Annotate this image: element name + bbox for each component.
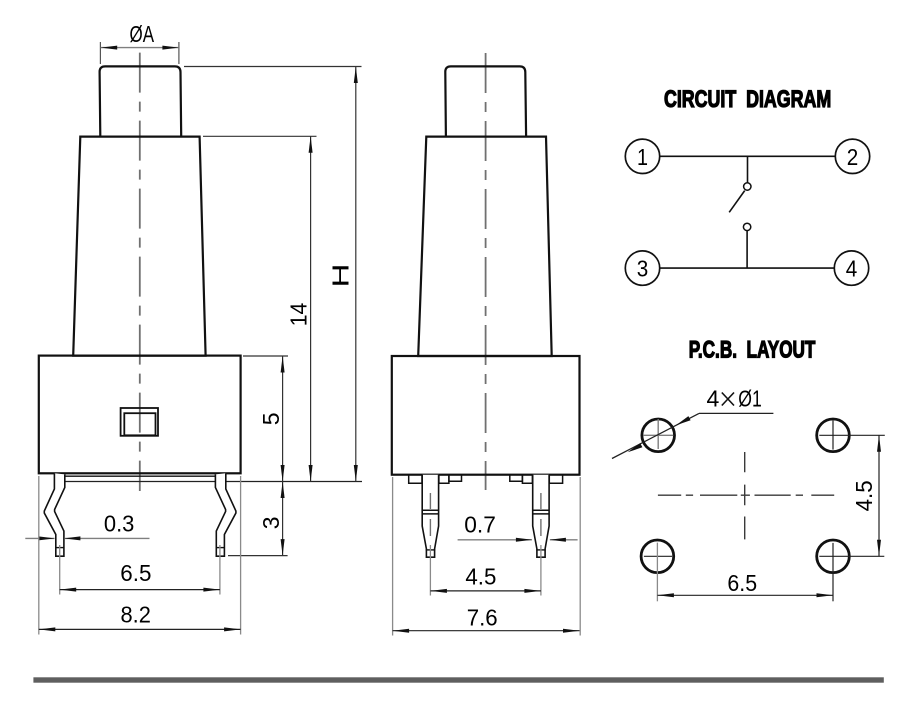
svg-text:4: 4	[846, 256, 858, 282]
front view: tapered plunger body	[73, 137, 205, 356]
terminal 1	[625, 139, 659, 173]
switch contact upper	[744, 183, 751, 190]
wire stub from top wire	[747, 156, 749, 182]
side view: mounting tabs left pin	[409, 475, 462, 484]
switch arm	[729, 191, 745, 213]
pcb hole bottom-left	[641, 540, 674, 601]
dimension H	[184, 67, 362, 482]
terminal 4	[834, 251, 868, 285]
front view: left lead pin	[44, 473, 65, 556]
svg-text:8.2: 8.2	[121, 602, 151, 628]
dimension 6.5 front	[60, 545, 220, 595]
svg-text:P.C.B. LAYOUT: P.C.B. LAYOUT	[689, 337, 816, 364]
front view: base window detail	[121, 408, 158, 436]
terminal 3	[625, 251, 659, 285]
pcb vertical centerline	[744, 452, 746, 539]
svg-text:Ø1: Ø1	[738, 386, 762, 412]
side view centerline	[485, 53, 487, 490]
pcb hole top-right	[817, 419, 885, 452]
pcb hole bottom-right	[817, 540, 885, 601]
dimension 5	[243, 356, 288, 482]
side view: right pin centerline	[540, 493, 542, 596]
wire terminal 1 to terminal 2	[660, 155, 836, 157]
side view: mounting tabs right pin	[510, 475, 563, 484]
svg-text:6.5: 6.5	[727, 570, 757, 596]
front view: base housing	[39, 356, 241, 474]
dimension 4.5 side	[430, 564, 541, 593]
svg-text:6.5: 6.5	[120, 560, 151, 586]
dimension 0.3	[25, 511, 149, 541]
pcb dimension 6.5	[657, 570, 833, 597]
svg-text:CIRCUIT DIAGRAM: CIRCUIT DIAGRAM	[664, 86, 831, 113]
svg-text:4.5: 4.5	[465, 564, 496, 590]
svg-text:5: 5	[258, 413, 284, 426]
side view: right lead pin	[533, 475, 549, 558]
footer separator bar	[33, 677, 883, 682]
front view centerline	[139, 53, 141, 491]
terminal 2	[835, 139, 869, 173]
svg-text:0.7: 0.7	[464, 512, 496, 538]
switch contact lower	[743, 223, 750, 230]
circuit diagram title	[664, 86, 831, 113]
pcb dimension 4.5	[851, 435, 881, 556]
leader 4x diameter 1	[612, 386, 773, 459]
pcb horizontal centerline	[658, 494, 834, 496]
pcb layout title	[689, 337, 816, 364]
side view: button cap	[445, 66, 526, 136]
svg-text:4: 4	[707, 386, 720, 412]
side view: base housing	[392, 356, 580, 475]
pcb hole top-left	[642, 419, 675, 452]
svg-text:0.3: 0.3	[104, 511, 134, 537]
svg-text:3: 3	[258, 517, 284, 530]
dimension 3	[228, 482, 288, 556]
front view: button cap	[100, 66, 182, 136]
front view: base bottom lip	[65, 476, 362, 481]
svg-text:14: 14	[286, 303, 312, 327]
svg-text:H: H	[328, 264, 354, 288]
dimension 14	[203, 136, 317, 481]
side view: left lead pin	[422, 475, 438, 558]
svg-text:2: 2	[847, 144, 859, 170]
dimension ØA	[100, 21, 178, 64]
svg-text:3: 3	[637, 256, 649, 282]
svg-text:7.6: 7.6	[467, 604, 498, 630]
wire terminal 3 to terminal 4	[660, 267, 835, 269]
svg-text:4.5: 4.5	[851, 480, 877, 511]
dimension 8.2	[39, 476, 241, 635]
wire stub to bottom wire	[746, 231, 748, 268]
dimension 0.7	[458, 512, 578, 542]
side view: left pin centerline	[429, 493, 431, 596]
dimension 7.6	[393, 477, 581, 636]
svg-text:ØA: ØA	[130, 21, 155, 47]
side view: tapered plunger body	[418, 137, 552, 356]
svg-text:1: 1	[637, 144, 648, 170]
front view: right lead pin	[215, 473, 236, 556]
